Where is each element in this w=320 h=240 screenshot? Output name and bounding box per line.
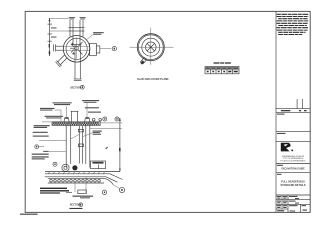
svg-text:SECTION: SECTION (70, 86, 81, 89)
svg-text:STANDARD DETAILS: STANDARD DETAILS (280, 184, 305, 187)
svg-text:SLAB AND COVER PLAN: SLAB AND COVER PLAN (137, 78, 167, 81)
svg-text:204: 204 (289, 209, 295, 213)
svg-text:PO BOX 1234 SPRINGFIELD: PO BOX 1234 SPRINGFIELD (280, 161, 306, 163)
svg-text:FULL HEADER BOX: FULL HEADER BOX (281, 181, 305, 184)
svg-text:EXCAVATION GUIDE: EXCAVATION GUIDE (281, 168, 305, 171)
